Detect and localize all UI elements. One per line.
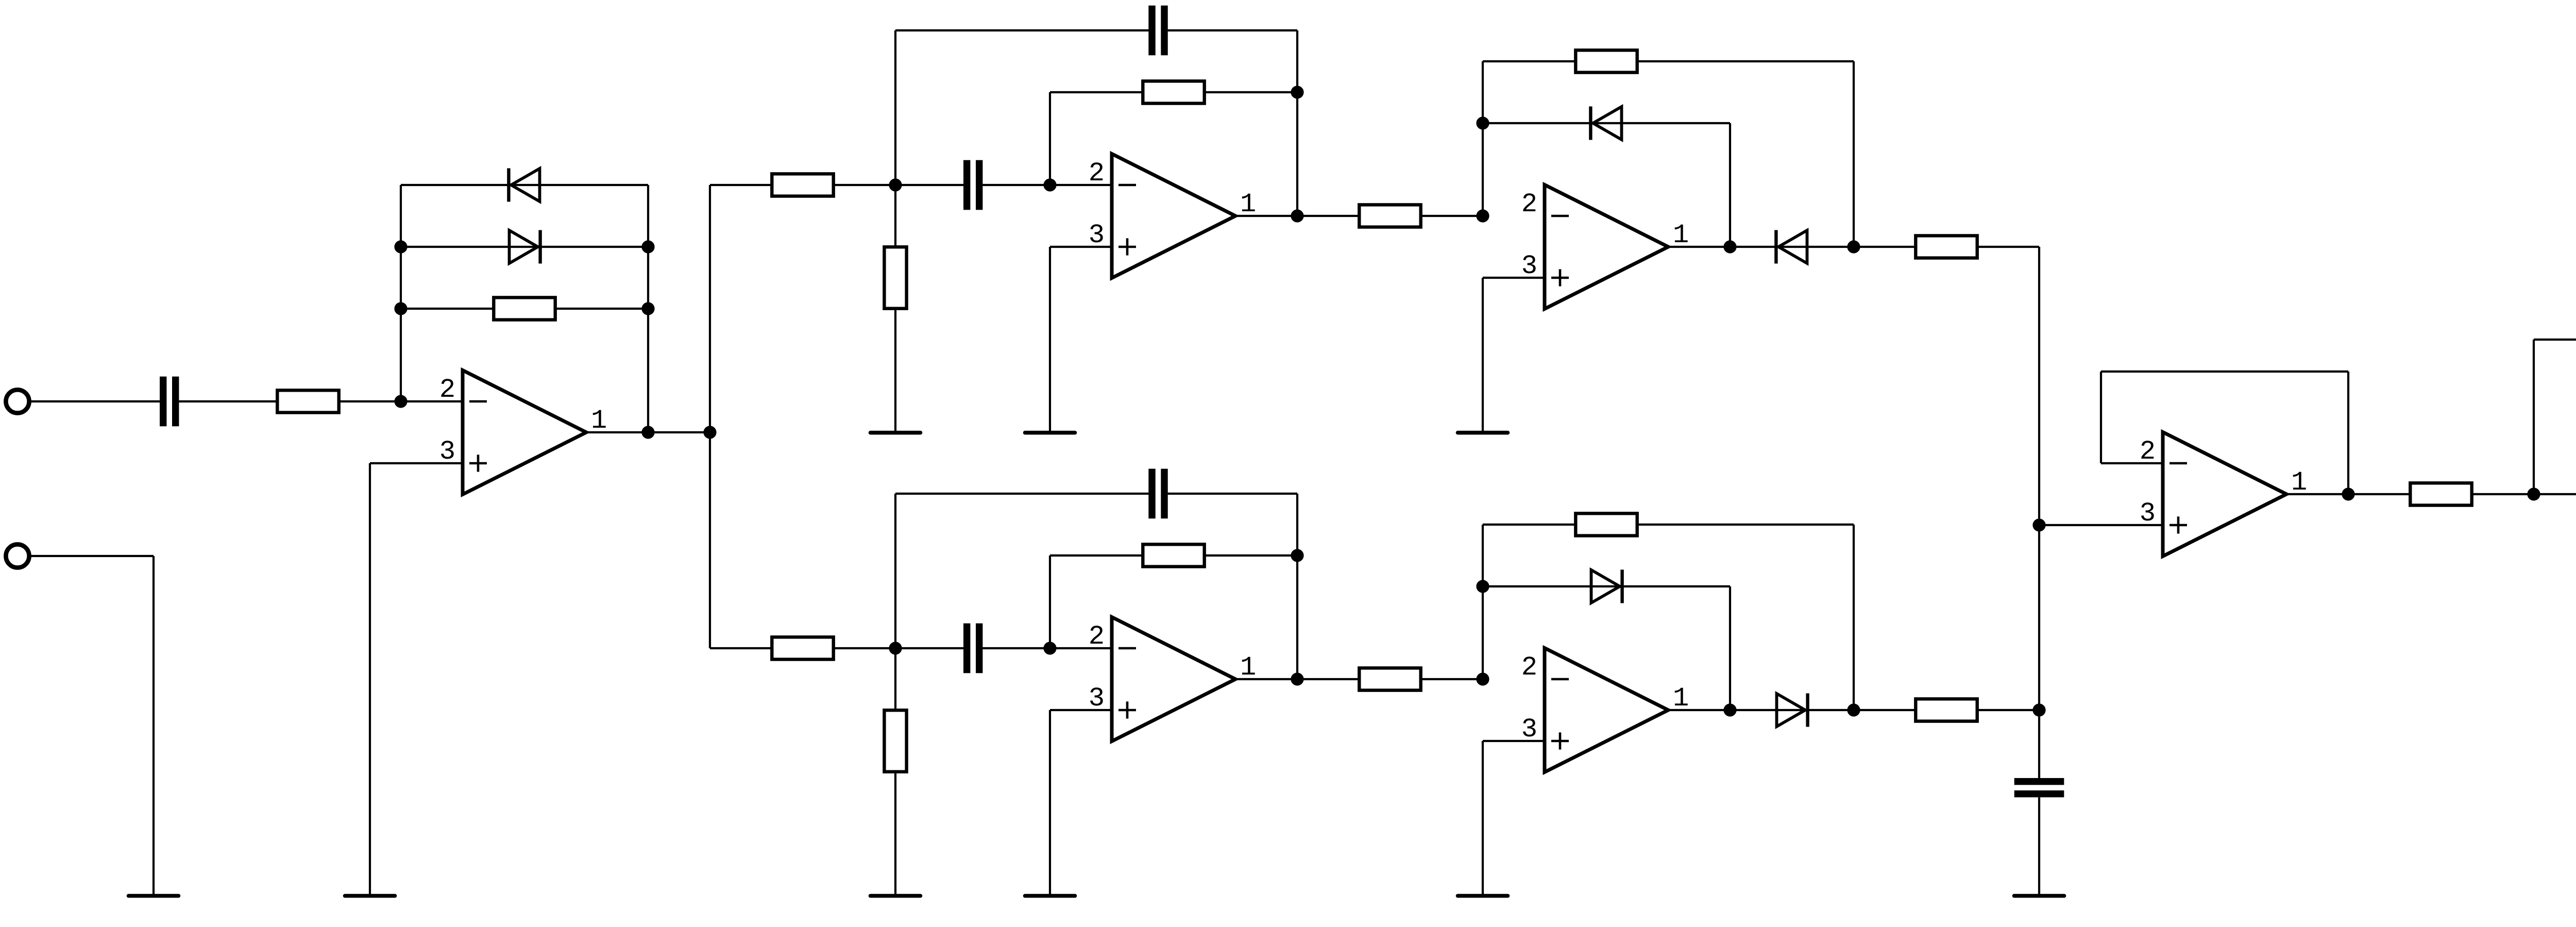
svg-text:2: 2 xyxy=(439,375,455,405)
svg-text:2: 2 xyxy=(1089,621,1105,652)
svg-text:2: 2 xyxy=(1521,652,1537,683)
svg-text:2: 2 xyxy=(1521,189,1537,220)
svg-text:2: 2 xyxy=(1089,158,1105,189)
svg-text:3: 3 xyxy=(2140,498,2156,529)
